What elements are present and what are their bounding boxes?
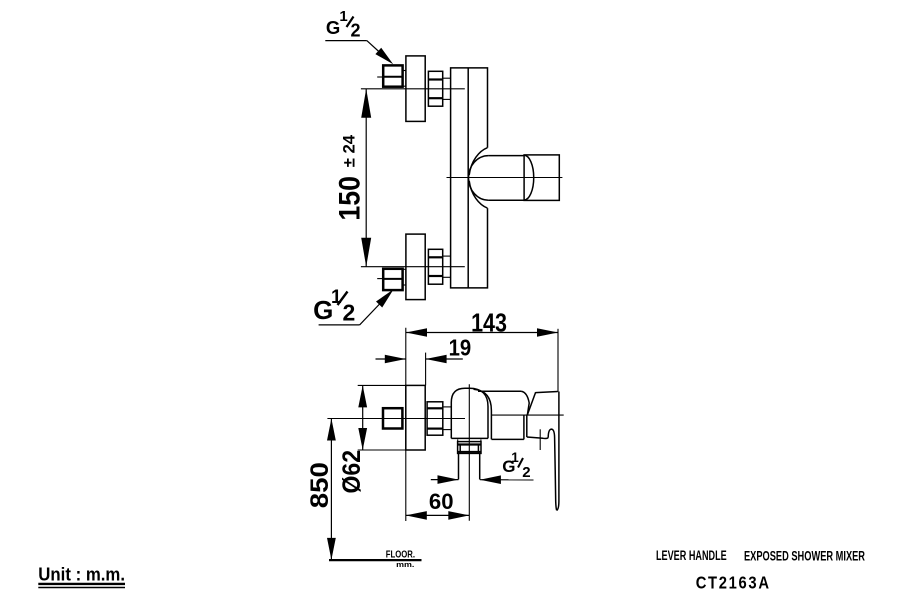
- bottom inlet wall nut: [383, 269, 402, 290]
- body block (side view): [478, 391, 529, 439]
- G 1/2 label (outlet): [502, 450, 530, 481]
- hex-to-body stubs (side view): [443, 407, 451, 430]
- top inlet flange: [406, 56, 425, 122]
- G 1/2 label (top inlet): [326, 8, 361, 40]
- body dome (side view): [451, 388, 491, 439]
- G 1/2 label (bottom inlet): [313, 287, 355, 325]
- G 1/2 outlet arrows: [431, 475, 534, 484]
- svg-text:150: 150: [334, 176, 367, 221]
- 150 plus-minus 24 dimension text: [334, 134, 367, 220]
- svg-text:143: 143: [471, 310, 507, 338]
- Unit underline 2: [38, 587, 125, 589]
- 850 dimension: [327, 419, 336, 560]
- svg-text:Ø62: Ø62: [338, 450, 366, 494]
- bottom inlet flange: [406, 234, 425, 300]
- bottom inlet nut stub line: [377, 278, 383, 280]
- top inlet neck: [403, 71, 406, 87]
- 19 dimension: [376, 355, 463, 364]
- bottom inlet hex nut: [428, 249, 442, 284]
- lever blade center mark: [539, 429, 541, 450]
- top inlet hex-to-body stubs: [443, 78, 451, 99]
- svg-text:mm.: mm.: [396, 560, 414, 569]
- top inlet nut stub line: [377, 76, 383, 78]
- svg-text:1: 1: [339, 8, 347, 25]
- svg-text:2: 2: [343, 299, 356, 325]
- cartridge joint lines (side view): [524, 415, 527, 439]
- G 1/2 top leader: [325, 41, 393, 65]
- cartridge dome (front view): [468, 148, 524, 208]
- lever blade (side view): [548, 392, 559, 511]
- inlet centerline (side view) + 850 extension: [327, 418, 465, 420]
- svg-text:G: G: [326, 17, 340, 38]
- 19 right extension line: [425, 353, 427, 386]
- svg-text:EXPOSED SHOWER MIXER: EXPOSED SHOWER MIXER: [744, 549, 865, 564]
- svg-text:60: 60: [429, 489, 454, 514]
- mixer body (front view): [451, 68, 488, 288]
- vertical outlet centerline (side view): [468, 384, 470, 521]
- 143 right extension line: [557, 329, 559, 392]
- 143 dimension: [406, 328, 558, 337]
- handle axis centerline (front view): [447, 177, 563, 179]
- svg-text:1: 1: [511, 450, 519, 465]
- top inlet hex nut: [428, 71, 442, 106]
- lever hub (side view): [527, 392, 558, 439]
- outlet connector nut (side view): [458, 439, 481, 453]
- valve axis centerline (side view): [491, 414, 564, 416]
- handle grip (front view): [524, 155, 559, 201]
- 60 dimension: [406, 511, 470, 520]
- svg-text:± 24: ± 24: [340, 134, 359, 167]
- G 1/2 bottom leader: [319, 289, 394, 325]
- svg-text:2: 2: [351, 20, 361, 40]
- svg-text:2: 2: [522, 464, 530, 481]
- svg-text:FLOOR.: FLOOR.: [386, 550, 415, 561]
- svg-text:1: 1: [331, 287, 342, 308]
- 143/60 left extension line: [405, 328, 407, 521]
- svg-text:19: 19: [449, 334, 472, 360]
- wall plate (side view): [406, 385, 425, 450]
- bottom inlet hex-to-body stubs: [443, 256, 451, 277]
- diameter 62 extension lines: [358, 385, 406, 450]
- hex connector (side view): [427, 402, 443, 435]
- diameter 62 dimension: [358, 385, 367, 450]
- svg-text:CT2163A: CT2163A: [696, 572, 771, 592]
- bottom inlet centerline: [361, 266, 465, 268]
- top inlet centerline: [361, 88, 465, 90]
- Unit underline 1: [38, 583, 125, 585]
- floor line: [329, 559, 422, 561]
- svg-text:850: 850: [306, 462, 334, 508]
- 150 dimension line: [361, 89, 371, 267]
- outlet pipe (side view): [459, 453, 480, 479]
- svg-text:Unit : m.m.: Unit : m.m.: [38, 564, 125, 584]
- svg-text:LEVER HANDLE: LEVER HANDLE: [656, 548, 727, 563]
- bottom inlet neck: [403, 269, 406, 285]
- wall square nut (side view): [383, 408, 402, 428]
- top inlet wall nut: [383, 65, 402, 86]
